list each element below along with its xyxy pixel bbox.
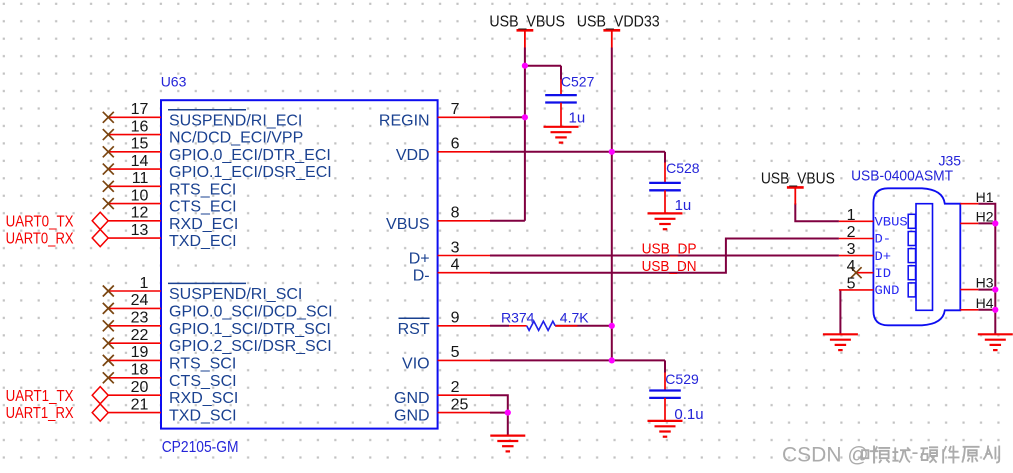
- svg-text:UART1_RX: UART1_RX: [6, 405, 74, 422]
- svg-text:15: 15: [131, 136, 149, 153]
- svg-text:10: 10: [131, 187, 149, 204]
- svg-text:NC/DCD_ECI/VPP: NC/DCD_ECI/VPP: [169, 130, 303, 147]
- svg-text:ID: ID: [875, 267, 892, 281]
- svg-text:9: 9: [451, 310, 460, 327]
- svg-text:4: 4: [451, 257, 460, 274]
- svg-text:GND: GND: [394, 390, 430, 407]
- svg-text:1: 1: [139, 275, 148, 292]
- svg-text:USB_DP: USB_DP: [642, 241, 697, 258]
- svg-text:GPIO.1_SCI/DTR_SCI: GPIO.1_SCI/DTR_SCI: [169, 321, 331, 338]
- svg-text:RST: RST: [398, 321, 430, 338]
- svg-text:U63: U63: [161, 73, 187, 89]
- svg-text:RXD_SCI: RXD_SCI: [169, 390, 238, 407]
- svg-text:GPIO.0_SCI/DCD_SCI: GPIO.0_SCI/DCD_SCI: [169, 303, 333, 320]
- svg-text:USB_VBUS: USB_VBUS: [761, 171, 835, 188]
- svg-text:UART0_RX: UART0_RX: [6, 231, 74, 248]
- svg-text:24: 24: [131, 292, 149, 309]
- svg-text:7: 7: [451, 101, 460, 118]
- svg-text:H4: H4: [976, 295, 994, 311]
- svg-text:GPIO.2_SCI/DSR_SCI: GPIO.2_SCI/DSR_SCI: [169, 338, 332, 355]
- svg-text:D-: D-: [875, 233, 892, 247]
- svg-text:23: 23: [131, 310, 149, 327]
- svg-text:TXD_ECI: TXD_ECI: [169, 233, 237, 250]
- svg-text:USB_VBUS: USB_VBUS: [489, 14, 565, 31]
- svg-text:GPIO.1_ECI/DSR_ECI: GPIO.1_ECI/DSR_ECI: [169, 164, 332, 181]
- svg-text:VBUS: VBUS: [386, 216, 430, 233]
- svg-text:GND: GND: [394, 408, 430, 425]
- svg-text:USB-0400ASMT: USB-0400ASMT: [851, 167, 953, 184]
- svg-text:13: 13: [131, 222, 149, 239]
- svg-text:4.7K: 4.7K: [560, 310, 589, 326]
- svg-text:H1: H1: [976, 189, 994, 205]
- svg-text:SUSPEND/RI_ECI: SUSPEND/RI_ECI: [169, 112, 302, 129]
- svg-text:2: 2: [847, 224, 856, 241]
- svg-text:RXD_ECI: RXD_ECI: [169, 216, 238, 233]
- svg-text:1: 1: [847, 207, 856, 224]
- svg-text:SUSPEND/RI_SCI: SUSPEND/RI_SCI: [169, 286, 302, 303]
- svg-text:22: 22: [131, 327, 149, 344]
- svg-text:3: 3: [451, 239, 460, 256]
- svg-text:TXD_SCI: TXD_SCI: [169, 408, 237, 425]
- svg-text:21: 21: [131, 396, 149, 413]
- svg-text:VDD: VDD: [396, 147, 430, 164]
- svg-text:RTS_ECI: RTS_ECI: [169, 181, 236, 198]
- svg-text:USB_DN: USB_DN: [642, 258, 697, 275]
- svg-text:CTS_ECI: CTS_ECI: [169, 199, 237, 216]
- svg-text:12: 12: [131, 205, 149, 222]
- svg-text:RTS_SCI: RTS_SCI: [169, 355, 236, 372]
- svg-text:USB_VDD33: USB_VDD33: [577, 14, 660, 31]
- svg-text:25: 25: [451, 396, 469, 413]
- svg-text:14: 14: [131, 153, 149, 170]
- svg-text:R374: R374: [501, 310, 535, 326]
- svg-text:C528: C528: [666, 160, 700, 176]
- svg-text:-: -: [912, 441, 919, 464]
- svg-text:H3: H3: [976, 275, 994, 291]
- svg-text:20: 20: [131, 379, 149, 396]
- svg-text:4: 4: [847, 258, 856, 275]
- svg-text:8: 8: [451, 205, 460, 222]
- svg-text:2: 2: [451, 379, 460, 396]
- svg-text:0.1u: 0.1u: [674, 406, 703, 423]
- svg-text:CP2105-GM: CP2105-GM: [162, 439, 239, 456]
- svg-text:1u: 1u: [675, 197, 692, 214]
- svg-text:16: 16: [131, 118, 149, 135]
- svg-text:17: 17: [131, 101, 149, 118]
- svg-text:6: 6: [451, 136, 460, 153]
- svg-text:D+: D+: [875, 250, 892, 264]
- svg-text:J35: J35: [939, 153, 962, 169]
- svg-text:CSDN @: CSDN @: [782, 444, 869, 467]
- svg-text:D-: D-: [413, 268, 430, 285]
- svg-text:UART0_TX: UART0_TX: [6, 214, 74, 231]
- svg-text:D+: D+: [409, 251, 430, 268]
- svg-text:11: 11: [132, 170, 149, 187]
- svg-text:REGIN: REGIN: [379, 112, 430, 129]
- svg-text:5: 5: [451, 344, 460, 361]
- svg-text:UART1_TX: UART1_TX: [6, 388, 74, 405]
- svg-text:1u: 1u: [569, 109, 586, 126]
- svg-text:H2: H2: [976, 209, 994, 225]
- svg-text:GPIO.0_ECI/DTR_ECI: GPIO.0_ECI/DTR_ECI: [169, 147, 331, 164]
- svg-text:VBUS: VBUS: [875, 216, 908, 230]
- svg-text:5: 5: [847, 275, 856, 292]
- svg-text:CTS_SCI: CTS_SCI: [169, 373, 237, 390]
- svg-text:3: 3: [847, 241, 856, 258]
- svg-text:GND: GND: [875, 284, 900, 298]
- svg-text:C527: C527: [561, 74, 595, 90]
- svg-text:18: 18: [131, 362, 149, 379]
- svg-text:C529: C529: [665, 371, 699, 387]
- svg-text:19: 19: [131, 344, 149, 361]
- svg-text:VIO: VIO: [402, 355, 430, 372]
